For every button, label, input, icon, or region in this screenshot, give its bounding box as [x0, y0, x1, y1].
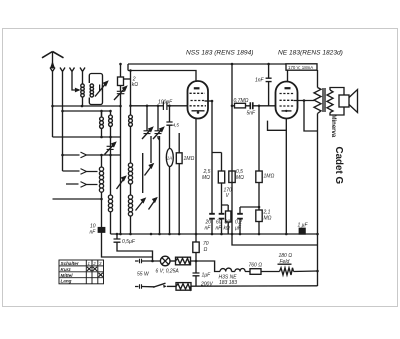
coil L2 top x110 [109, 115, 113, 119]
switch contact fork y184 [81, 182, 87, 188]
svg-text:nF: nF [205, 226, 212, 232]
resistor 1Mohm osc [176, 153, 182, 164]
svg-text:NSS 183 (RENS 1894): NSS 183 (RENS 1894) [186, 50, 253, 57]
vertical x240 0.2uF [240, 207, 259, 234]
svg-text:Minerva: Minerva [330, 115, 336, 138]
svg-text:kΩ: kΩ [132, 82, 139, 88]
svg-text:1A: 1A [167, 155, 172, 160]
svg-text:Cadet G: Cadet G [333, 147, 344, 185]
svg-text:MΩ: MΩ [264, 216, 272, 222]
column x181 resistor 1M [178, 133, 180, 234]
output transformer primary [314, 88, 321, 114]
svg-text:nF: nF [216, 226, 223, 232]
second top wire to tube1 cap [128, 71, 196, 83]
switch table [59, 260, 104, 284]
svg-text:0,5µF: 0,5µF [122, 239, 136, 245]
tube2 pins [285, 119, 287, 235]
column x151 [151, 136, 160, 234]
0.5uF cap drop [117, 234, 153, 261]
capacitor 5nF [250, 102, 253, 109]
svg-text:Kurz: Kurz [61, 267, 72, 272]
top bus B+ [128, 63, 286, 65]
pilot lamp [160, 256, 170, 266]
wire y106 [53, 105, 121, 107]
capacitor 20nF [209, 214, 215, 219]
resistor 760ohm [250, 269, 261, 275]
tube2 pin bracket [268, 121, 287, 131]
vertical x232 bus-to-bus [231, 64, 233, 234]
lamp to fuse wire [170, 260, 176, 262]
column x158 trimmer drop [158, 106, 160, 140]
svg-text:1MΩ: 1MΩ [264, 174, 275, 180]
svg-text:3: 3 [99, 261, 102, 266]
heater hump pair V2 [235, 269, 245, 272]
capacitor 1nF [266, 78, 272, 81]
vertical to tuning coil [130, 71, 132, 116]
column x130.5 [130, 128, 132, 235]
antenna coil secondary + frame [89, 74, 102, 105]
resistor 1Mohm g2 [256, 171, 262, 183]
svg-text:Lang: Lang [61, 279, 72, 284]
1nF drop from bus [268, 64, 270, 106]
vertical x259 grid2 leak [258, 106, 260, 234]
capacitor 10nF [98, 228, 104, 233]
svg-text:1MΩ: 1MΩ [184, 156, 195, 162]
bottom line to right rail [191, 285, 318, 287]
svg-text:kΩ: kΩ [224, 226, 231, 232]
coil L6 x130 mid [128, 163, 132, 167]
oscillator coil column x101.5 [101, 111, 103, 254]
anode wire tube1 [205, 100, 213, 102]
svg-text:100pF: 100pF [158, 100, 173, 106]
svg-text:4,5: 4,5 [173, 123, 180, 128]
fuse 1A [166, 149, 173, 167]
capacitor 0.5uF plates [114, 239, 121, 242]
resistor 30kohm [226, 211, 231, 222]
terminal 3 [70, 68, 79, 91]
svg-text:170 V; 18mA: 170 V; 18mA [288, 65, 313, 70]
coil L3 top x130 [129, 115, 133, 119]
fuse to 70ohm junction [191, 234, 197, 261]
column x147 trimmer drop [146, 106, 148, 131]
switch wire y184 [66, 183, 98, 186]
wire 0.7M to grid2 [232, 105, 276, 107]
terminal 2 [60, 68, 65, 172]
trimmer pair mid x158 [155, 131, 162, 134]
svg-text:Mittel: Mittel [61, 273, 74, 278]
tube2 top cap [287, 70, 289, 82]
vertical x221.5 lower [221, 183, 223, 234]
resistor box bottom [176, 283, 191, 291]
fuse box top [176, 257, 191, 265]
svg-text:1 µF: 1 µF [298, 223, 309, 229]
box 170V 18mA [286, 64, 317, 70]
trimmer pair mid x147 [144, 131, 151, 134]
antenna [42, 52, 64, 58]
svg-text:V: V [226, 193, 230, 199]
svg-text:1nF: 1nF [255, 78, 265, 84]
tube V1 NSS183 [188, 81, 209, 119]
wire band-switch arm [142, 153, 144, 193]
mains entry bottom [135, 286, 154, 288]
resistor 180ohm Feld [280, 268, 294, 275]
wire y137 [53, 136, 121, 138]
switch arrow x152 low [149, 198, 157, 210]
antenna terminal 1 [50, 68, 55, 138]
heater hump pair V1 [220, 268, 232, 271]
output transformer feed [317, 70, 319, 286]
heater feed [196, 261, 220, 272]
switch contact fork y171 [81, 169, 87, 175]
wire from osc coil to mains y257 [102, 254, 153, 258]
terminal 4 [80, 68, 85, 85]
speaker [330, 88, 344, 116]
bracket x212-x221 [212, 153, 222, 172]
antenna coil primary [81, 84, 85, 88]
switch arrow x148 [145, 164, 154, 176]
coil L4 mid x101 [99, 167, 103, 171]
transformer core [323, 88, 325, 112]
capacitor 4.5 [166, 122, 172, 125]
transformer secondary [327, 90, 333, 113]
resistor 0.7Mohm [235, 103, 246, 108]
resistor 2.1Mohm [256, 210, 262, 222]
svg-text:MΩ: MΩ [236, 175, 244, 181]
capacitor 60nF [219, 214, 225, 219]
svg-text:760 Ω: 760 Ω [249, 263, 263, 269]
coil L1 tuning top x101 [100, 117, 104, 121]
coil L7 x130 low [128, 195, 132, 199]
resistor 70ohm [193, 242, 199, 253]
column x169.5 fuse 1A [169, 106, 171, 234]
capacitor 0.2uF [237, 214, 243, 219]
coil L5 x110 low [108, 195, 112, 199]
svg-text:5nF: 5nF [247, 111, 257, 117]
mains entry top [135, 260, 161, 262]
capacitor 100pF [163, 102, 167, 111]
bus stub to y245 line [232, 234, 318, 245]
resistor 0.5Mohm [229, 171, 235, 183]
wire y199 [53, 198, 102, 200]
vertical x196 tube1 cathode pin [195, 119, 197, 234]
svg-text:1µF: 1µF [202, 273, 212, 279]
trimmer cap across secondary [100, 85, 103, 92]
svg-text:6 V; 0,25A: 6 V; 0,25A [156, 269, 180, 275]
switch arrow x140 low [136, 199, 146, 211]
switch wire y171 [63, 170, 98, 173]
trimmer on x110 [107, 146, 114, 149]
grid wire tube1 [131, 105, 188, 107]
mains switch blade [154, 283, 166, 287]
svg-text:55 W: 55 W [137, 272, 150, 278]
column x110.5 [110, 111, 112, 234]
trimmer cap below 2k [117, 91, 125, 93]
junction down to 1uF [195, 261, 197, 286]
tube2 anode node dot [303, 99, 306, 102]
svg-text:MΩ: MΩ [202, 175, 210, 181]
svg-text:nF: nF [90, 230, 97, 236]
switch arrow x121 [117, 177, 126, 190]
heater humps wire [232, 270, 318, 273]
capacitor 1uF mains [193, 273, 200, 276]
tube V2 NE183 [276, 82, 298, 119]
svg-text:1: 1 [88, 261, 91, 266]
svg-text:µF: µF [235, 226, 242, 232]
resistor 2kohm drop from bus [120, 64, 122, 234]
wire y111 [63, 110, 111, 112]
capacitor 1uF output [299, 228, 305, 234]
svg-text:0,7MΩ: 0,7MΩ [234, 98, 249, 104]
svg-text:Schalter: Schalter [61, 261, 79, 266]
resistor 2kohm [118, 77, 124, 86]
vertical x212 [211, 101, 213, 234]
svg-text:Feld: Feld [280, 259, 290, 265]
resistor 2.5Mohm [218, 171, 224, 183]
svg-text:2: 2 [92, 261, 96, 266]
main bottom bus y234 [111, 233, 318, 235]
svg-text:NE 183(RENS 1823d): NE 183(RENS 1823d) [278, 50, 343, 57]
switch contact fork y155 [63, 154, 121, 156]
svg-text:Ω: Ω [204, 247, 208, 253]
svg-text:200V: 200V [200, 282, 213, 288]
svg-text:183 183: 183 183 [219, 280, 237, 286]
